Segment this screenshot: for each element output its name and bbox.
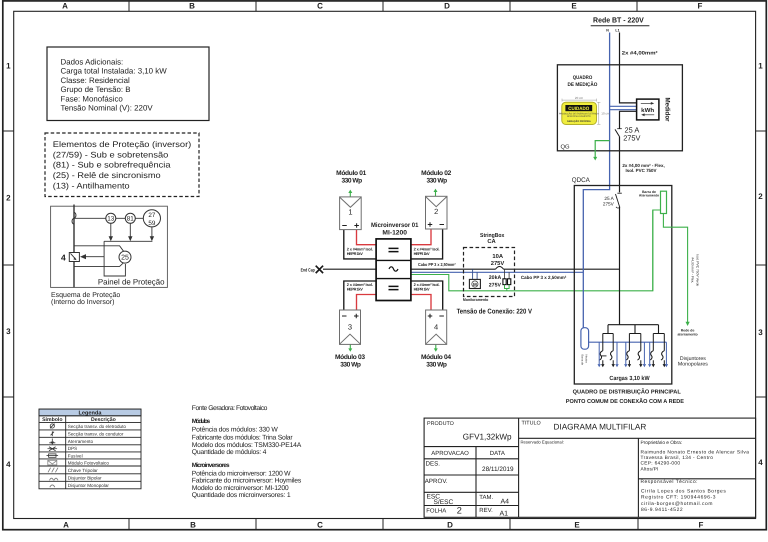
svg-text:B: B	[189, 2, 195, 11]
svg-text:F: F	[699, 520, 704, 529]
svg-text:275V: 275V	[489, 282, 502, 288]
svg-text:M: M	[473, 282, 477, 287]
svg-text:D: D	[444, 2, 450, 11]
svg-text:CEP: 64290-000: CEP: 64290-000	[641, 461, 681, 467]
svg-text:Monopolares: Monopolares	[678, 362, 708, 368]
svg-text:2: 2	[457, 506, 462, 516]
svg-text:2: 2	[6, 193, 11, 202]
svg-text:Legenda: Legenda	[78, 409, 102, 416]
svg-text:N: N	[606, 28, 609, 32]
svg-text:End Cap: End Cap	[301, 267, 315, 272]
svg-text:(13) - Antilhamento: (13) - Antilhamento	[53, 181, 130, 190]
svg-text:Altos/PI: Altos/PI	[641, 467, 659, 473]
svg-text:Modelo dos módulos: TSM330-PE1: Modelo dos módulos: TSM330-PE14A	[192, 442, 302, 449]
svg-text:275V: 275V	[603, 202, 615, 207]
svg-text:E: E	[574, 520, 580, 529]
svg-text:Disjuntor Monopolar: Disjuntor Monopolar	[68, 483, 110, 488]
svg-text:CA: CA	[487, 238, 496, 245]
svg-text:Tensão Nominal (V): 220V: Tensão Nominal (V): 220V	[61, 104, 154, 113]
svg-text:Cabo PP 3 x 2,50mm²: Cabo PP 3 x 2,50mm²	[418, 262, 456, 267]
svg-text:Fase: Monofásico: Fase: Monofásico	[61, 95, 124, 104]
svg-text:3: 3	[348, 323, 352, 332]
svg-text:Reservado Equacional:: Reservado Equacional:	[521, 440, 564, 445]
svg-text:Neutro: Neutro	[584, 355, 588, 364]
svg-text:1: 1	[6, 61, 11, 70]
svg-text:APROVACAO: APROVACAO	[431, 450, 469, 457]
svg-text:DES.: DES.	[426, 460, 441, 467]
svg-text:Módulo Fotovoltaico: Módulo Fotovoltaico	[68, 460, 110, 465]
svg-text:+: +	[354, 311, 359, 321]
svg-text:SEM DESLIGAMENTO: SEM DESLIGAMENTO	[567, 115, 591, 118]
svg-text:PONTO COMUM DE CONEXÃO COM A R: PONTO COMUM DE CONEXÃO COM A REDE	[566, 397, 684, 405]
svg-text:Módulo 01: Módulo 01	[336, 170, 366, 177]
svg-text:+: +	[427, 220, 432, 230]
svg-text:Esquema de Proteção: Esquema de Proteção	[51, 291, 120, 299]
svg-text:DATA: DATA	[490, 450, 505, 457]
svg-text:Aterramento: Aterramento	[639, 194, 659, 198]
svg-text:Secção transv. do condutor: Secção transv. do condutor	[68, 432, 124, 437]
svg-text:Cargas 3,10 kW: Cargas 3,10 kW	[609, 375, 650, 382]
svg-text:S/ESC: S/ESC	[434, 499, 454, 506]
svg-text:aterramento: aterramento	[677, 332, 697, 336]
svg-text:Carga total Instalada: 3,10 kW: Carga total Instalada: 3,10 kW	[61, 67, 168, 76]
svg-text:QUADRO DE DISTRIBUIÇÃO PRINCIP: QUADRO DE DISTRIBUIÇÃO PRINCIPAL	[573, 387, 682, 395]
svg-text:Barra de: Barra de	[581, 355, 585, 366]
svg-text:Aterramento: Aterramento	[68, 439, 94, 444]
svg-text:+: +	[354, 220, 359, 230]
svg-text:4: 4	[61, 252, 66, 262]
svg-text:Módulo 04: Módulo 04	[421, 354, 451, 361]
svg-text:3: 3	[6, 327, 11, 336]
svg-text:2: 2	[434, 207, 438, 216]
svg-text:Módulo 03: Módulo 03	[335, 354, 365, 361]
svg-text:(81) - Sub e sobrefrequência: (81) - Sub e sobrefrequência	[53, 161, 171, 170]
svg-text:330 Wp: 330 Wp	[426, 362, 447, 369]
svg-text:DIAGRAMA MULTIFILAR: DIAGRAMA MULTIFILAR	[554, 423, 647, 432]
svg-text:−: −	[342, 311, 347, 321]
svg-text:REV.: REV.	[479, 507, 493, 514]
svg-text:Símbolo: Símbolo	[42, 417, 62, 423]
svg-text:(25) - Relê de sincronismo: (25) - Relê de sincronismo	[53, 171, 161, 180]
svg-text:330 Wp: 330 Wp	[341, 177, 362, 184]
svg-text:Fabricante dos módulos: Trina: Fabricante dos módulos: Trina Solar	[192, 434, 294, 441]
svg-text:2: 2	[758, 192, 763, 201]
svg-text:28/11/2019: 28/11/2019	[482, 466, 514, 473]
svg-text:Secção transv. do eletroduto: Secção transv. do eletroduto	[68, 424, 127, 429]
svg-text:Microinversor 01: Microinversor 01	[371, 222, 419, 229]
svg-text:TAM.: TAM.	[479, 494, 493, 501]
svg-text:−: −	[342, 220, 347, 230]
svg-text:86-9.9411-4522: 86-9.9411-4522	[641, 507, 683, 513]
svg-text:2x #4,00mm²: 2x #4,00mm²	[622, 50, 658, 56]
svg-text:59: 59	[148, 220, 156, 227]
svg-text:Quantidade de módulos: 4: Quantidade de módulos: 4	[192, 449, 267, 456]
svg-text:QUADRO: QUADRO	[573, 75, 593, 81]
svg-text:F: F	[698, 2, 703, 11]
svg-text:Chave Tripolar: Chave Tripolar	[68, 468, 98, 473]
svg-text:Medidor: Medidor	[664, 98, 671, 122]
svg-text:Painel de Proteção: Painel de Proteção	[98, 278, 165, 287]
svg-text:DE MEDIÇÃO: DE MEDIÇÃO	[568, 81, 598, 88]
svg-text:QDCA: QDCA	[572, 177, 591, 184]
svg-text:C: C	[317, 2, 323, 11]
svg-text:PRODUTO: PRODUTO	[427, 421, 454, 427]
svg-text:Fonte Geradora: Fotovoltaico: Fonte Geradora: Fotovoltaico	[192, 405, 268, 412]
svg-text:4: 4	[434, 323, 438, 332]
svg-text:Raimundo Nonato Ernesto de Ale: Raimundo Nonato Ernesto de Alencar Silva	[641, 450, 750, 456]
svg-text:Cabo PP 3 x 2,50mm²: Cabo PP 3 x 2,50mm²	[521, 275, 567, 280]
svg-text:Proprietário e Obra:: Proprietário e Obra:	[641, 440, 683, 446]
svg-text:QG: QG	[561, 144, 571, 151]
svg-text:kWh: kWh	[641, 107, 654, 114]
svg-text:1: 1	[758, 61, 763, 70]
svg-text:Quantidade dos microinversores: Quantidade dos microinversores: 1	[192, 492, 291, 499]
svg-text:Módulo 02: Módulo 02	[421, 170, 451, 177]
svg-text:A: A	[62, 2, 68, 11]
svg-text:Monitoramento: Monitoramento	[463, 297, 489, 302]
svg-text:4: 4	[758, 458, 763, 467]
svg-text:20kA: 20kA	[489, 275, 502, 281]
svg-text:4: 4	[6, 460, 11, 469]
svg-text:(27/59) - Sub e sobretensão: (27/59) - Sub e sobretensão	[53, 150, 169, 159]
svg-text:FOLHA: FOLHA	[426, 508, 446, 515]
svg-text:Isol. PVC 750V Verde: Isol. PVC 750V Verde	[695, 254, 699, 286]
svg-text:Grupo de Tensão: B: Grupo de Tensão: B	[61, 85, 131, 94]
svg-text:Fusível: Fusível	[68, 453, 83, 458]
svg-text:13: 13	[107, 216, 115, 223]
svg-text:275V: 275V	[491, 260, 505, 267]
svg-text:DPS: DPS	[68, 446, 77, 451]
svg-text:Microinversores: Microinversores	[192, 462, 230, 469]
svg-text:−: −	[439, 220, 444, 230]
svg-text:Potência do microinversor: 120: Potência do microinversor: 1200 W	[192, 470, 291, 477]
svg-text:+: +	[427, 311, 432, 321]
svg-text:Registro CFT: 190944696-3: Registro CFT: 190944696-3	[641, 494, 716, 500]
svg-text:Rede BT - 220V: Rede BT - 220V	[593, 15, 644, 24]
svg-text:APROV.: APROV.	[425, 478, 448, 485]
svg-text:CUIDADO: CUIDADO	[568, 106, 589, 112]
svg-text:A1: A1	[500, 511, 509, 518]
svg-text:330 Wp: 330 Wp	[340, 362, 361, 369]
svg-text:HEPR 1kV: HEPR 1kV	[414, 251, 430, 256]
svg-text:10A: 10A	[492, 253, 503, 260]
svg-text:HEPR 1kV: HEPR 1kV	[347, 287, 363, 292]
svg-text:HEPR 1kV: HEPR 1kV	[347, 251, 363, 256]
svg-text:C: C	[317, 520, 323, 529]
svg-text:Classe: Residencial: Classe: Residencial	[61, 76, 131, 85]
svg-text:25: 25	[121, 255, 129, 262]
svg-text:E: E	[571, 2, 577, 11]
svg-text:A: A	[63, 520, 69, 529]
svg-text:330 Wp: 330 Wp	[426, 177, 447, 184]
svg-text:Módulos: Módulos	[192, 418, 211, 425]
svg-text:81: 81	[127, 216, 135, 223]
svg-text:Tensão de Conexão: 220 V: Tensão de Conexão: 220 V	[457, 308, 533, 316]
svg-text:Responsável Técnico:: Responsável Técnico:	[641, 479, 698, 485]
svg-text:−: −	[439, 311, 444, 321]
svg-text:MI-1200: MI-1200	[382, 230, 407, 237]
svg-text:Fabricante do microinversor: H: Fabricante do microinversor: Hoymiles	[192, 477, 302, 484]
svg-text:Isol. PVC 750V: Isol. PVC 750V	[626, 168, 657, 173]
svg-text:A4: A4	[501, 498, 510, 505]
svg-text:Potência dos módulos: 330 W: Potência dos módulos: 330 W	[192, 426, 279, 433]
svg-text:Cirila Lopes dos Santos Borges: Cirila Lopes dos Santos Borges	[641, 489, 726, 495]
svg-text:3: 3	[758, 328, 763, 337]
svg-text:L1: L1	[615, 28, 619, 32]
svg-text:StringBox: StringBox	[480, 232, 505, 239]
svg-text:GERAÇÃO PRÓPRIA: GERAÇÃO PRÓPRIA	[567, 119, 591, 123]
svg-text:D: D	[447, 520, 453, 529]
svg-text:(Interno do Inversor): (Interno do Inversor)	[51, 298, 114, 306]
svg-text:275V: 275V	[623, 133, 640, 142]
svg-text:Disjuntor Bipolar: Disjuntor Bipolar	[68, 475, 102, 480]
svg-text:20 cm: 20 cm	[575, 96, 584, 100]
svg-text:TITULO: TITULO	[522, 421, 541, 427]
svg-text:Travessa Brasil, 134 - Centro: Travessa Brasil, 134 - Centro	[641, 455, 714, 461]
svg-text:#4,00 mm² - Flex,: #4,00 mm² - Flex,	[690, 257, 694, 283]
svg-text:Dados Adicionais:: Dados Adicionais:	[61, 58, 124, 67]
svg-text:Elementos de Proteção (inverso: Elementos de Proteção (inversor)	[53, 140, 192, 149]
svg-text:1: 1	[348, 208, 352, 217]
svg-text:Descrição: Descrição	[91, 417, 116, 423]
svg-text:25 A: 25 A	[604, 196, 614, 201]
svg-text:HEPR 1kV: HEPR 1kV	[414, 287, 430, 292]
svg-text:B: B	[190, 520, 196, 529]
svg-text:cirila-borges@hotmail.com: cirila-borges@hotmail.com	[641, 501, 712, 507]
svg-text:10 cm: 10 cm	[601, 112, 610, 116]
svg-text:GFV1,32kWp: GFV1,32kWp	[463, 431, 512, 441]
svg-text:27: 27	[148, 212, 156, 219]
